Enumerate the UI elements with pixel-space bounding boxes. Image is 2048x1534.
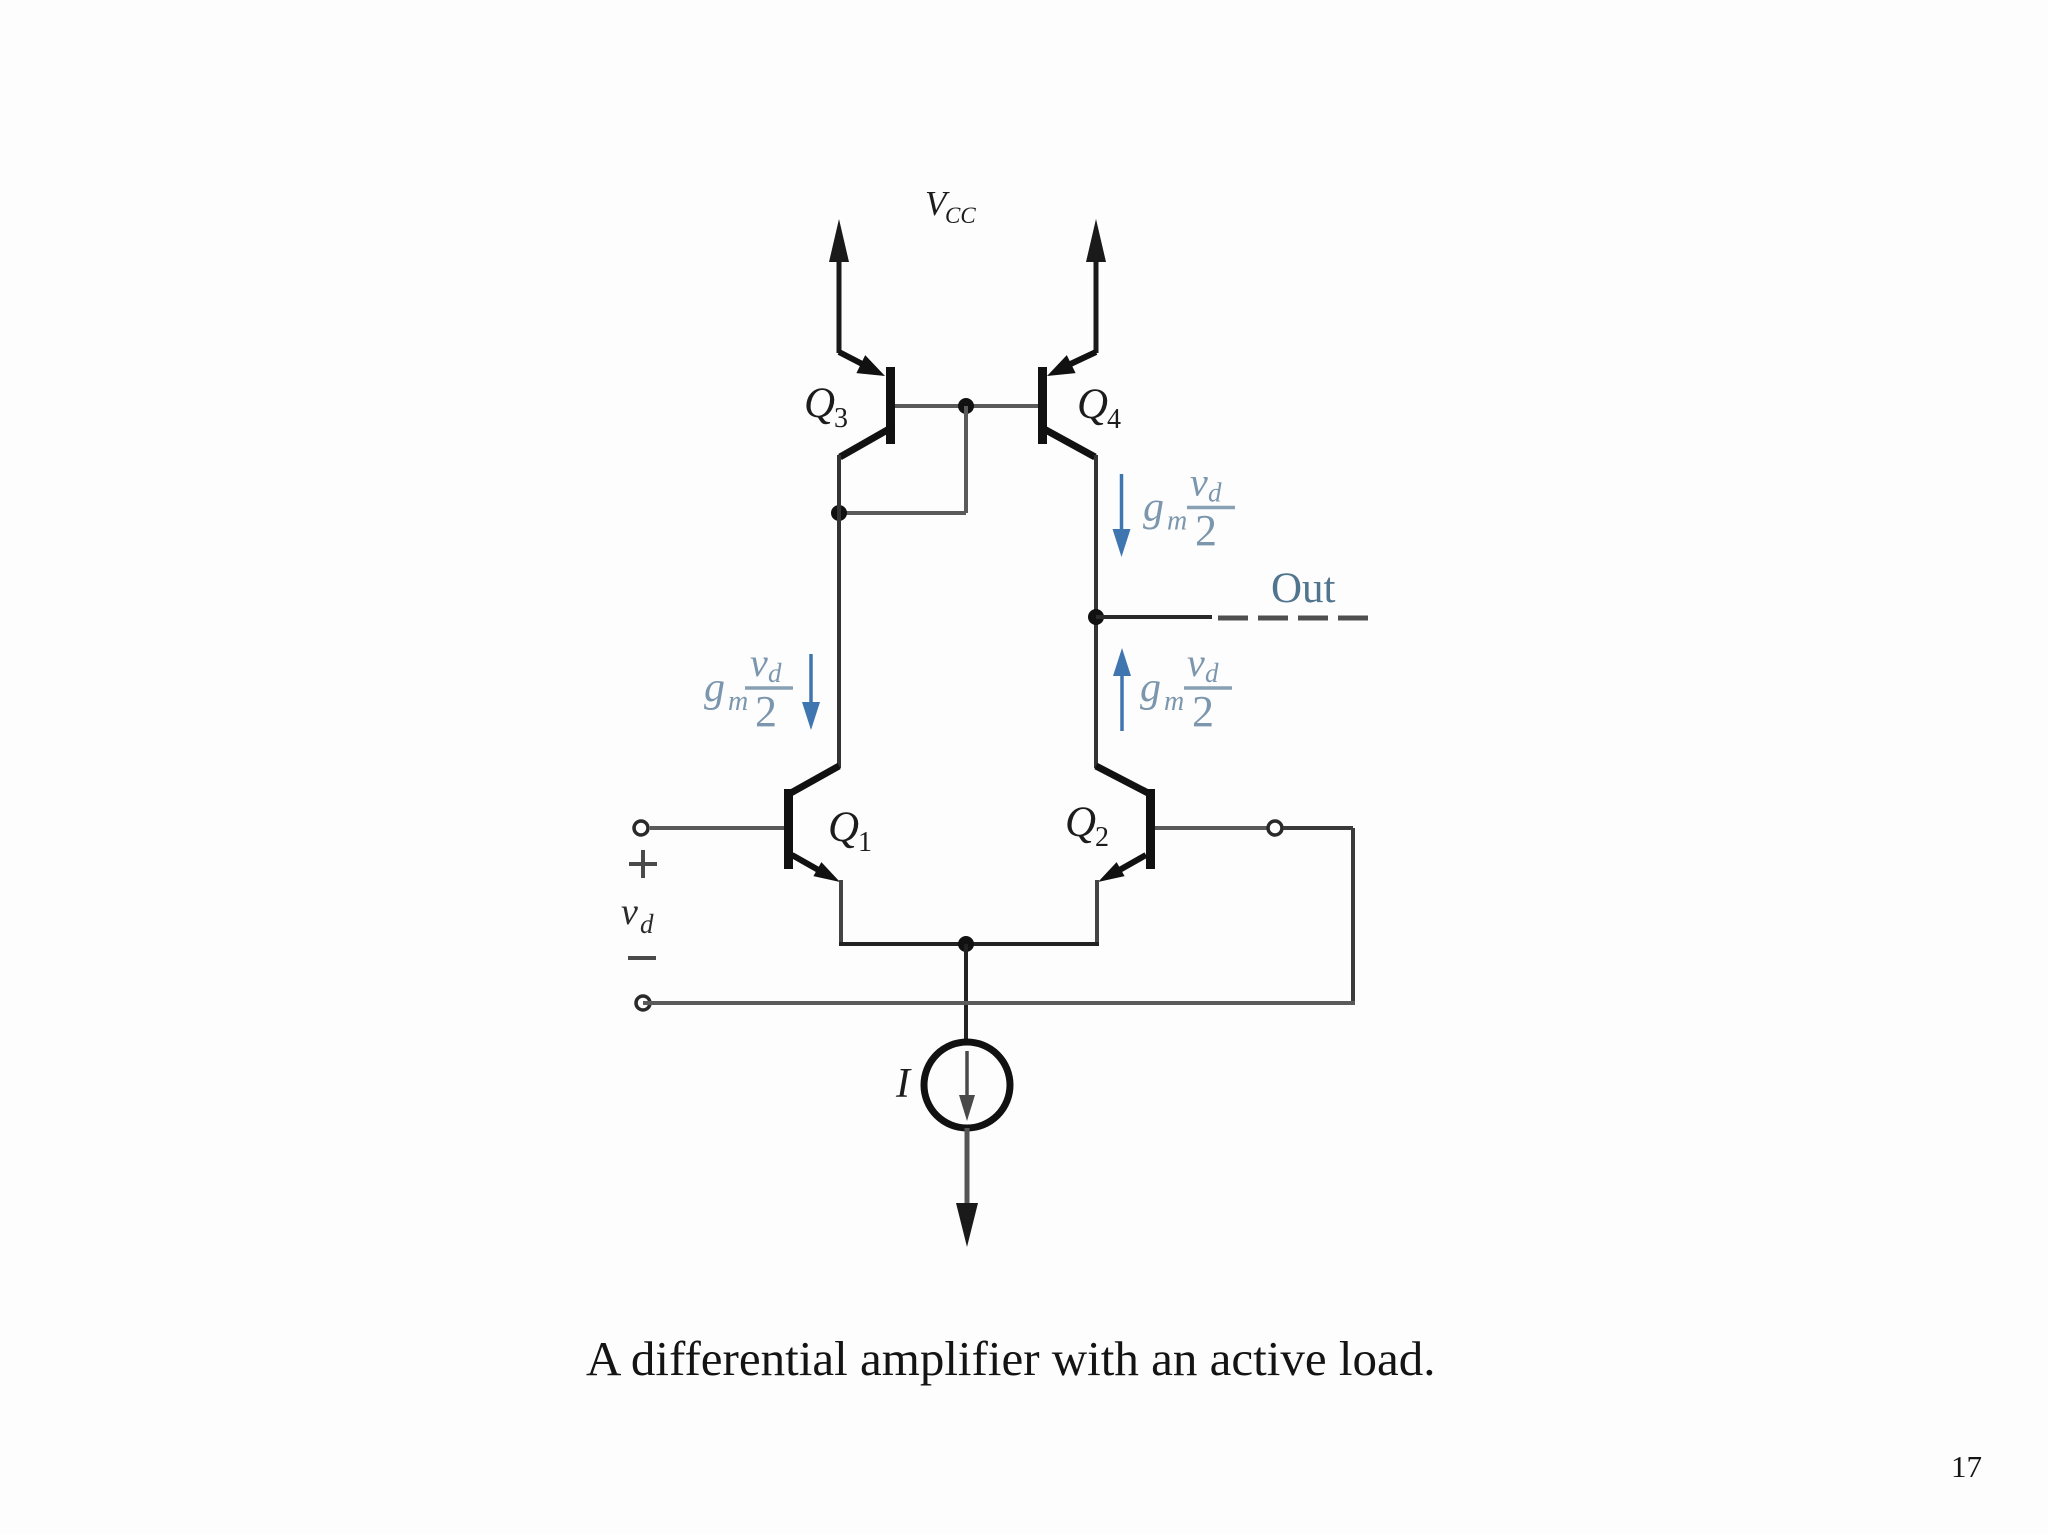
svg-text:v: v [1187,640,1205,685]
svg-text:d: d [768,658,782,688]
current label gm vd/2 right upper (Q4 collector current) [1113,460,1236,558]
svg-text:A differential amplifier with: A differential amplifier with an active … [586,1331,1436,1386]
terminal circle input + [634,821,648,835]
svg-text:I: I [895,1061,912,1107]
wire: right branch vertical (Q4 collector to Q2 collector) [1094,455,1098,768]
wire: base bus Q3-Q4 [895,404,1038,408]
wire: emitter rail [839,942,1099,946]
label Q2 [1065,799,1109,853]
svg-text:2: 2 [755,687,777,736]
wire: left branch vertical (Q3 collector to Q1 collector) [837,455,841,768]
wire: below current source [965,1128,970,1206]
svg-text:g: g [1140,665,1161,711]
transistor Q3 (pnp) [839,352,895,457]
wire: tail down to current source [964,944,968,1044]
wire: right terminal to corner [1283,826,1353,830]
svg-text:4: 4 [1107,404,1121,435]
wire: out solid [1096,615,1212,619]
VCC arrow right (Q4 emitter to VCC) [1086,219,1106,353]
node at Q3 collector [831,505,847,521]
transistor Q4 (pnp) [1038,352,1096,457]
transistor Q1 (npn) [784,766,840,882]
wire: out dashed [1218,616,1368,621]
svg-text:v: v [750,640,768,685]
svg-text:Out: Out [1271,565,1336,612]
terminal circle right [1268,821,1282,835]
label Q1 [828,804,872,858]
node tail [958,936,974,952]
svg-text:Q: Q [1077,381,1108,428]
node at base bus [958,398,974,414]
transistor Q2 (npn) [1096,766,1155,882]
svg-text:Q: Q [804,380,835,427]
current source I [924,1042,1010,1128]
svg-text:Q: Q [828,804,859,851]
svg-text:m: m [1164,686,1184,717]
svg-text:v: v [1190,460,1208,505]
label Q3 [804,380,848,434]
svg-text:m: m [1167,506,1187,537]
wire: Q1 emitter down [839,880,843,946]
svg-text:d: d [1205,658,1219,688]
current label gm vd/2 left (Q1 collector current, arrow down) [704,640,820,736]
wire: right vertical down [1351,828,1355,1003]
svg-text:d: d [640,909,654,939]
terminal circle input - [636,996,650,1010]
wire: base-collector tie vertical [964,406,968,513]
label vd [621,891,654,939]
wire: bottom return [643,1001,1355,1005]
wire: base-collector tie horizontal [839,511,966,515]
svg-text:1: 1 [858,827,872,858]
node Out [1088,609,1104,625]
wire: input to Q1 base [650,826,784,830]
svg-text:d: d [1208,478,1222,508]
svg-text:m: m [728,686,748,717]
arrowhead bottom [956,1203,978,1247]
label minus [628,956,656,960]
svg-text:g: g [1143,485,1164,531]
svg-text:2: 2 [1192,687,1214,736]
label Q4 [1077,381,1121,435]
wire: Q2 base to right terminal [1155,826,1267,830]
svg-text:Q: Q [1065,799,1096,846]
svg-text:v: v [621,891,638,933]
svg-text:CC: CC [945,203,976,228]
svg-text:g: g [704,665,725,711]
svg-text:17: 17 [1951,1449,1982,1484]
svg-text:3: 3 [834,403,848,434]
current label gm vd/2 right middle (Q2 collector current, arrow up) [1113,640,1232,736]
wire: Q2 emitter down [1095,880,1099,946]
label + [629,850,657,878]
svg-text:2: 2 [1195,506,1217,555]
VCC label [925,184,976,228]
svg-text:2: 2 [1095,822,1109,853]
VCC arrow left (Q3 emitter to VCC) [829,219,849,353]
